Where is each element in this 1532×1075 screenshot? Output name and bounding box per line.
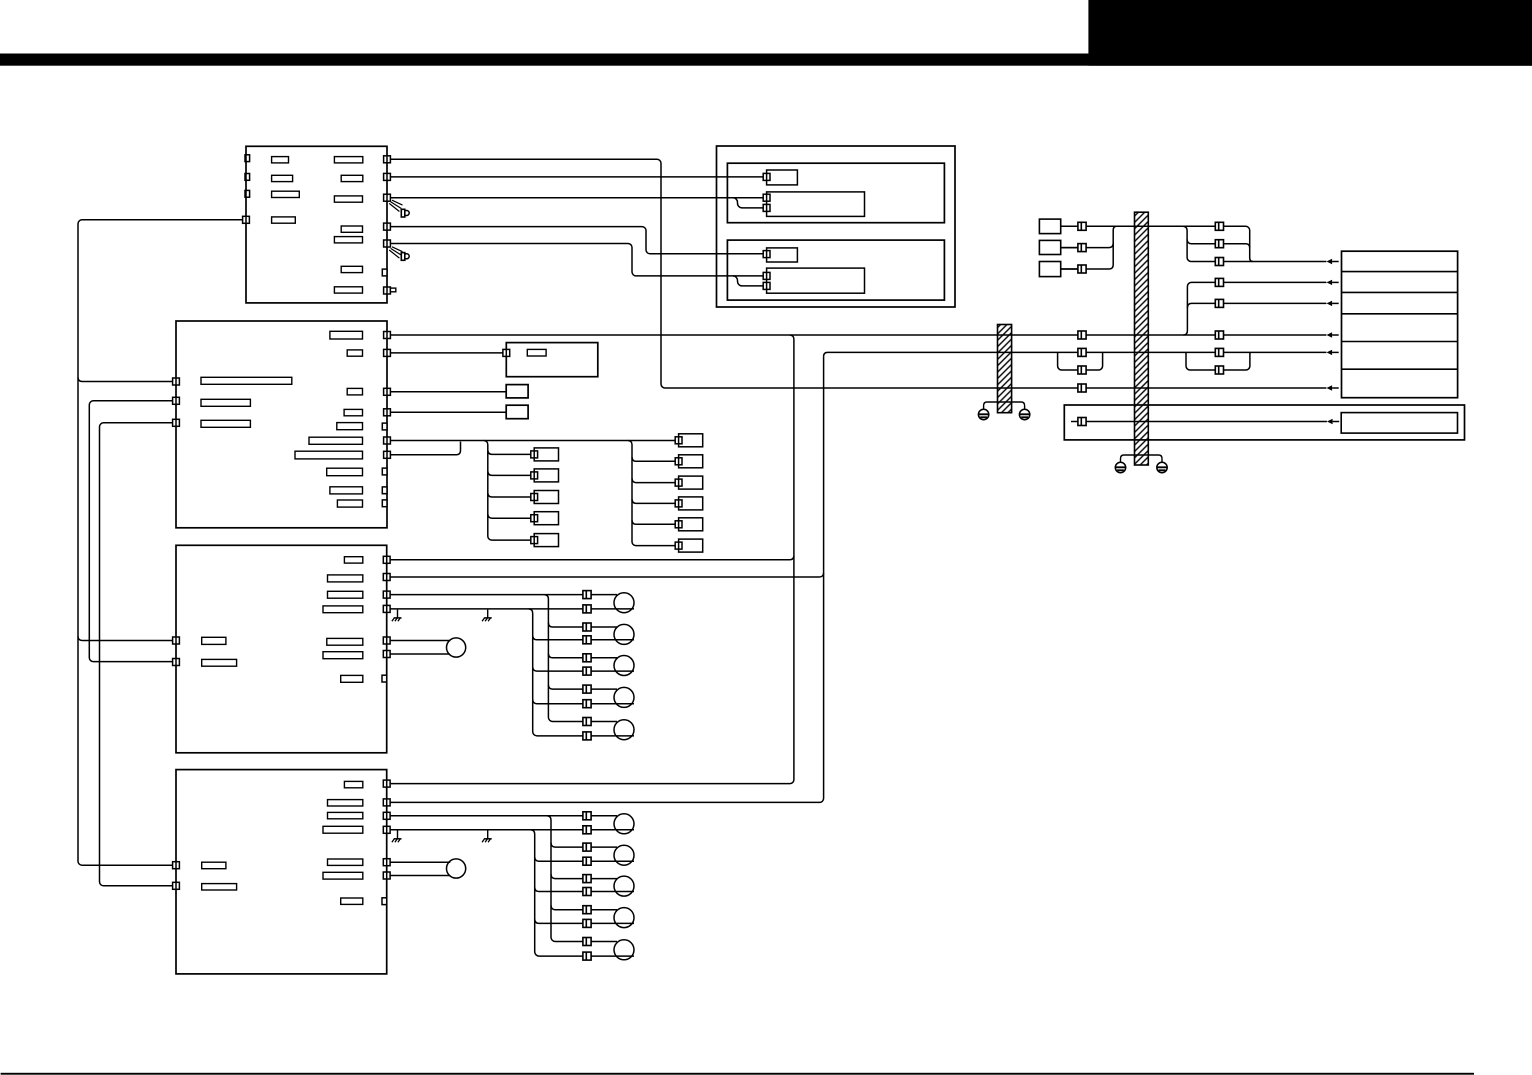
connector right row y226 — [1215, 222, 1223, 230]
arrow into terminal row 4 — [1327, 332, 1339, 337]
wire loop speaker A woofer pin2 — [733, 198, 763, 208]
shield bar 2 (hatched) — [1135, 212, 1149, 465]
connector D row 6 — [583, 888, 591, 896]
wire D even bus — [531, 830, 634, 956]
wire D odd bus — [547, 816, 617, 942]
wire antenna sq2 merge — [1061, 243, 1114, 247]
connector C row 10 — [583, 732, 591, 740]
connector D row 4 — [583, 857, 591, 865]
wire net P vertical to D pin R1 — [387, 335, 794, 784]
block B right label 3 — [347, 388, 362, 395]
wire junction bus1 to C pin L1 — [78, 637, 176, 641]
connector D row 2 — [583, 826, 591, 834]
wire A pin4 to speaker B tweeter — [387, 227, 763, 254]
wire A pin1 long run to terminal row6 — [387, 159, 1326, 388]
display unit pin — [503, 349, 510, 356]
arrow into wide box — [1327, 419, 1339, 424]
block A mid label 7 — [334, 287, 362, 293]
block B right label 8 — [327, 468, 363, 476]
block B left label 3 — [201, 420, 250, 427]
block B right small pin y503 — [382, 500, 387, 507]
connector D row 10 — [583, 952, 591, 960]
wire antenna sq2 stub — [1061, 247, 1078, 249]
wire shield box line — [1071, 421, 1327, 423]
wire C pin R3 row to lamp1 — [387, 594, 617, 596]
block C right label 2 — [328, 575, 363, 582]
cable connector R4 — [675, 497, 702, 510]
block A right pin 3 — [384, 194, 391, 201]
connector mid-bar row y388 — [1078, 384, 1086, 392]
connector D row 3 — [583, 843, 591, 851]
block B left label 2 — [201, 399, 250, 406]
block A right pin 4 — [384, 223, 391, 230]
connector mid-bar row y370 — [1078, 366, 1086, 374]
block C right label 4 — [323, 606, 363, 613]
stacked terminal box — [1342, 251, 1458, 398]
speaker system outer box — [717, 146, 956, 307]
connector mid-bar row y421 — [1078, 418, 1086, 426]
speaker A tweeter rect — [767, 170, 798, 185]
lamp 5 deck C — [614, 720, 634, 740]
block C right label 3 — [328, 591, 363, 598]
block B right label 10 — [337, 500, 362, 507]
block C right label 7 — [341, 675, 363, 682]
connector C row 2 — [583, 605, 591, 613]
speaker A woofer rect — [767, 192, 865, 217]
lamp 1 deck D — [614, 814, 634, 834]
cable connector R2 — [675, 455, 702, 468]
block C left pin 2 — [173, 659, 180, 666]
wire A pin5 to speaker B woofer — [387, 244, 763, 276]
block D right pin y802 — [383, 799, 390, 806]
lamp 2 deck D — [614, 845, 634, 865]
arrow into terminal row 2 — [1327, 280, 1339, 285]
RCA plug symbol at A pin3 — [389, 200, 409, 217]
wire A pin3 to speaker A woofer — [387, 197, 763, 199]
ground at D pin R4 wire (near pin) — [392, 831, 402, 843]
connector C row 4 — [583, 636, 591, 644]
wire B pin L3 to D pin L2 (bus3) — [100, 423, 177, 886]
block A left label 2 — [272, 175, 293, 181]
block A right pin 5 — [384, 240, 391, 247]
connector C row 1 — [583, 591, 591, 599]
speaker B woofer pin 2 — [763, 282, 770, 289]
block D right label 5 — [328, 859, 363, 865]
block A mid label 1 — [334, 157, 362, 163]
small module box 1 — [506, 385, 528, 398]
block A right pin 7 — [384, 287, 396, 294]
wire D pin R5 to motor — [387, 861, 451, 863]
block D right label 3 — [328, 812, 363, 818]
connector D row 8 — [583, 919, 591, 927]
wire B pin R1 long net to terminal row4 — [387, 334, 1326, 336]
cable connector L5 — [531, 534, 559, 547]
block A (receiver unit) — [246, 146, 387, 303]
block D right label 2 — [328, 800, 363, 806]
ground at C pin R4 wire (mid) — [482, 610, 492, 622]
wire C pin R6 to motor — [387, 653, 450, 655]
header title block (black) — [1088, 0, 1532, 66]
wire net Q vertical to D pin R2 — [387, 356, 824, 802]
block B left pin 3 — [173, 419, 180, 426]
wide bottom inner box — [1341, 413, 1457, 434]
block A left pin 4 — [243, 216, 250, 223]
cable connector R6 — [675, 539, 702, 552]
connector D row 7 — [583, 906, 591, 914]
block A left label 4 — [272, 217, 296, 223]
wire C pin R5 to motor — [387, 640, 451, 642]
connector D row 1 — [583, 812, 591, 820]
connector D row 5 — [583, 875, 591, 883]
motor circle deck D — [447, 859, 466, 878]
block D right label 1 — [344, 781, 362, 787]
lamp 4 deck C — [614, 687, 634, 707]
wire B pin L2 to C pin L2 (bus2) — [89, 401, 176, 662]
wire loop pair left of shield — [1058, 352, 1103, 370]
block D right small pin — [382, 898, 387, 905]
connector C row 9 — [583, 718, 591, 726]
lamp 2 deck C — [614, 624, 634, 644]
wire antenna sq3 merge bus — [1061, 226, 1117, 269]
connector D row 9 — [583, 938, 591, 946]
connector C row 7 — [583, 685, 591, 693]
block B right label 7 — [295, 451, 363, 459]
motor circle deck C — [447, 638, 466, 657]
wire B pin R5 to connector R1 — [387, 440, 679, 442]
cable connector L1 — [531, 448, 559, 461]
block C right pin y640 — [383, 637, 390, 644]
small module box 2 — [506, 405, 528, 419]
arrow into terminal row 6 — [1327, 385, 1339, 390]
block B right pin y352 — [384, 349, 391, 356]
wide bottom box — [1064, 405, 1464, 440]
block A left pin 3 — [245, 190, 250, 197]
block C right pin y594 — [383, 591, 390, 598]
earth ground right of bar2 — [1157, 462, 1167, 472]
block D right pin y875 — [383, 872, 390, 879]
block A mid label 4 — [341, 226, 362, 232]
display unit box — [506, 343, 598, 377]
wire B pin R4 to module 2 — [387, 411, 506, 413]
block C (cassette deck 1) — [176, 545, 387, 753]
connector mid-bar row y335 — [1078, 331, 1086, 339]
wire net Q horizontal to terminal row5 — [824, 352, 1327, 356]
lamp 3 deck D — [614, 876, 634, 896]
block B right pin y412 — [384, 409, 391, 416]
wire antenna sq3 stub — [1061, 268, 1078, 270]
block B right label 9 — [330, 487, 363, 494]
connector mid-bar row y226 — [1078, 222, 1086, 230]
block A mid label 2 — [341, 175, 363, 181]
connector right row y261 — [1215, 258, 1223, 266]
wire A left pin to left bus — [78, 220, 246, 865]
block B right small pin y471 — [382, 468, 387, 475]
block B right label 1 — [330, 331, 363, 339]
wire bus to connectors L branch4 — [488, 514, 534, 518]
wire loop pair right of shield — [1186, 352, 1250, 370]
wire bus to connectors L — [484, 441, 534, 541]
cable connector L4 — [531, 512, 559, 525]
connector right row y352 — [1215, 348, 1223, 356]
RCA plug symbol at A pin5 — [389, 247, 409, 261]
block A right pin 2 — [384, 173, 391, 180]
block A left pin 2 — [245, 174, 250, 181]
wire D pin R3 row to lamp1 — [387, 815, 617, 817]
wire D pin R6 to motor — [387, 875, 450, 877]
cable connector R3 — [675, 476, 702, 489]
wire C even bus — [529, 609, 634, 736]
wire antenna sq1 row — [1061, 226, 1254, 261]
connector right row y303 — [1215, 299, 1223, 307]
block A right pin 6 — [382, 269, 387, 276]
wire bus to connectors R — [628, 441, 679, 546]
earth ground right of bar1 — [1019, 409, 1029, 419]
block D left label 1 — [202, 862, 226, 869]
shield bar 1 (hatched) — [998, 325, 1012, 413]
wire antenna fan right — [1183, 226, 1326, 261]
connector right row y335 — [1215, 331, 1223, 339]
block D right label 4 — [323, 826, 363, 833]
antenna terminal square 1 — [1039, 219, 1060, 234]
connector C row 3 — [583, 623, 591, 631]
block D right pin y783 — [383, 780, 390, 787]
wire B pin R2 to display — [387, 352, 506, 354]
connector right row y243 — [1215, 240, 1223, 248]
block B right label 4 — [344, 409, 362, 415]
ground at C pin R4 wire (near pin) — [392, 610, 402, 622]
block C left label 1 — [202, 637, 226, 644]
block D right label 7 — [341, 898, 363, 904]
block C right pin y577 — [383, 574, 390, 581]
block D left pin 1 — [173, 862, 180, 869]
block A mid label 5 — [334, 237, 362, 243]
speaker B tweeter rect — [767, 248, 798, 262]
speaker A inner box — [727, 163, 944, 223]
wire C pin R4 row under lamp1 — [387, 608, 634, 610]
block B right small pin y490 — [382, 487, 387, 494]
wire loop speaker B woofer pin2 — [733, 276, 763, 286]
connector right row y282 — [1215, 278, 1223, 286]
block A mid label 6 — [341, 266, 362, 272]
block B left pin 1 — [173, 378, 180, 385]
cable connector R5 — [675, 518, 702, 531]
block D right label 6 — [323, 872, 363, 879]
connector C row 5 — [583, 654, 591, 662]
wire net P branch to C pin R1 — [387, 556, 794, 560]
speaker B woofer pin 1 — [763, 272, 770, 279]
wire B pin R3 to module 1 — [387, 391, 506, 393]
speaker B woofer rect — [767, 268, 865, 293]
block B left pin 2 — [173, 397, 180, 404]
cable connector R1 — [675, 434, 702, 447]
connector mid-bar row y352 — [1078, 348, 1086, 356]
wire net Q branch to C pin R2 — [387, 573, 824, 577]
block B left label 1 — [201, 377, 292, 384]
arrow into terminal row 1 — [1327, 259, 1339, 264]
wire right bus up to rows 2-3 — [1183, 282, 1326, 335]
block B right pin y454 — [384, 451, 391, 458]
antenna terminal square 2 — [1039, 240, 1060, 254]
block D left label 2 — [202, 884, 237, 890]
block D left pin 2 — [173, 882, 180, 889]
speaker A woofer pin 1 — [763, 194, 770, 201]
block A left pin 1 — [245, 155, 250, 162]
block A left label 3 — [272, 191, 300, 197]
earth ground left of bar1 — [978, 409, 988, 419]
wire C odd bus — [544, 595, 617, 722]
block C left label 2 — [202, 659, 237, 666]
earth ground left of bar2 — [1115, 462, 1125, 472]
speaker B inner box — [727, 240, 944, 300]
block C right label 5 — [327, 638, 363, 645]
block B right label 6 — [309, 437, 363, 444]
block C right pin y654 — [383, 651, 390, 658]
block C right pin y559 — [383, 556, 390, 563]
lamp 5 deck D — [614, 940, 634, 960]
speaker B tweeter pin — [763, 251, 770, 258]
connector right row y370 — [1215, 366, 1223, 374]
wire junction bus1 to B pin L1 — [78, 378, 176, 382]
lamp 1 deck C — [614, 593, 634, 613]
cable connector L3 — [531, 491, 559, 504]
header rule bar (black) — [0, 54, 1532, 66]
block B right label 5 — [337, 423, 363, 430]
block D right pin y829 — [383, 826, 390, 833]
block C right label 1 — [344, 557, 362, 563]
antenna terminal square 3 — [1039, 262, 1060, 277]
wire D pin R4 row under lamp1 — [387, 829, 634, 831]
connector C row 8 — [583, 700, 591, 708]
block B right pin y335 — [384, 332, 391, 339]
block D right pin y862 — [383, 859, 390, 866]
display unit label — [527, 349, 546, 356]
block B right pin y391 — [384, 388, 391, 395]
block B right small pin y426 — [382, 423, 387, 430]
lamp 4 deck D — [614, 908, 634, 928]
arrow into terminal row 3 — [1327, 301, 1339, 306]
speaker A tweeter pin — [763, 173, 770, 180]
bottom rule — [1, 1073, 1474, 1075]
shield bar1 ground bracket — [984, 402, 1025, 410]
block A left label 1 — [272, 157, 289, 163]
speaker A woofer pin 2 — [763, 204, 770, 211]
wire antenna sq1 stub — [1061, 225, 1078, 227]
block C right pin y608 — [383, 605, 390, 612]
block A mid label 3 — [334, 196, 362, 202]
block D right pin y815 — [383, 812, 390, 819]
shield bar2 ground bracket — [1121, 455, 1163, 463]
block C left pin 1 — [173, 637, 180, 644]
block D (cassette deck 2) — [176, 770, 387, 974]
connector mid-bar row y269 — [1078, 265, 1086, 273]
ground at D pin R4 wire (mid) — [482, 831, 492, 843]
block B right pin y440 — [384, 437, 391, 444]
cable connector L2 — [531, 469, 559, 482]
wire A pin2 to speaker A tweeter — [387, 176, 763, 178]
wire B pin R6 merge — [387, 442, 461, 455]
connector C row 6 — [583, 667, 591, 675]
lamp 3 deck C — [614, 656, 634, 676]
block C right small pin — [382, 675, 387, 682]
connector mid-bar row y247 — [1078, 244, 1086, 252]
block B (amplifier unit) — [176, 321, 387, 528]
arrow into terminal row 5 — [1327, 350, 1339, 355]
block B right label 2 — [347, 350, 362, 356]
block C right label 6 — [323, 652, 363, 659]
block A right pin 1 — [384, 156, 391, 163]
